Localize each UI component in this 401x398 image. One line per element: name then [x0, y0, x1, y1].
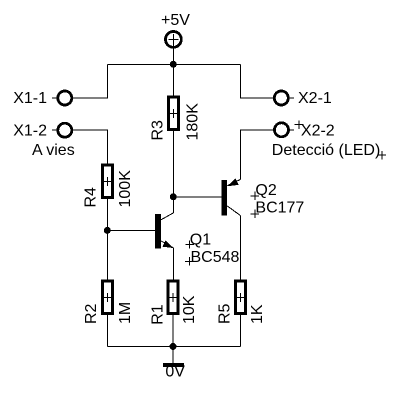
- wire Q2 collector to R5: [240, 216, 242, 280]
- wire R2 to bottom rail: [106, 314, 108, 347]
- junction top rail / +5V node: [170, 61, 177, 68]
- wire +5V stem: [172, 48, 174, 64]
- wire X2-2 to Q2 emitter: [241, 130, 274, 180]
- junction Q1 collector / Q2 base node: [170, 193, 177, 200]
- wire R4 to base node: [106, 199, 108, 230]
- svg-text:Q1: Q1: [190, 231, 211, 248]
- resistor R5: [236, 281, 246, 314]
- resistor R4: [102, 165, 112, 198]
- wire Q1 base: [107, 229, 156, 231]
- connector X1-1: [52, 91, 72, 105]
- resistor R3: [168, 97, 178, 130]
- resistor R1: [168, 281, 178, 314]
- transistor Q2: [222, 178, 241, 215]
- connector X2-2: [275, 123, 295, 137]
- svg-text:X2-1: X2-1: [298, 90, 332, 107]
- wire X1-2 to R4: [73, 130, 107, 163]
- wire top rail: [107, 63, 240, 65]
- svg-text:X1-1: X1-1: [13, 90, 47, 107]
- svg-text:+5V: +5V: [161, 12, 190, 29]
- svg-text:A vies: A vies: [32, 142, 75, 159]
- svg-text:BC548: BC548: [191, 249, 240, 266]
- svg-text:R2: R2: [83, 303, 100, 324]
- svg-text:1K: 1K: [249, 304, 266, 324]
- junction ground node: [170, 343, 177, 350]
- svg-text:R5: R5: [216, 303, 233, 324]
- wire node to Q2 base: [173, 196, 222, 198]
- wire base node to R2: [106, 230, 108, 279]
- svg-text:R3: R3: [149, 120, 166, 141]
- wire Q1 emitter to R1: [172, 248, 174, 280]
- origin cross Q1 label: [185, 240, 193, 248]
- svg-text:100K: 100K: [117, 170, 134, 208]
- wire bottom rail: [107, 345, 240, 347]
- connector X2-1: [274, 91, 294, 105]
- origin cross Deteccio label: [378, 151, 387, 160]
- svg-text:0V: 0V: [165, 363, 185, 380]
- svg-text:Q2: Q2: [255, 182, 276, 199]
- svg-text:1M: 1M: [117, 302, 134, 324]
- svg-text:X2-2: X2-2: [301, 122, 335, 139]
- svg-text:X1-2: X1-2: [13, 122, 47, 139]
- transistor Q1: [155, 197, 173, 249]
- resistor R2: [102, 281, 112, 314]
- svg-text:R4: R4: [82, 187, 99, 208]
- ground symbol 0V: [163, 363, 184, 367]
- connector X1-2: [52, 123, 72, 137]
- wire right drop to X2-1: [240, 64, 273, 98]
- wire R3 top stem: [172, 64, 174, 95]
- svg-text:R1: R1: [149, 304, 166, 325]
- wire R5 to bottom rail: [240, 314, 242, 347]
- svg-text:10K: 10K: [181, 295, 198, 324]
- wire R1 to bottom rail: [172, 314, 174, 347]
- junction Q1 base node: [104, 227, 111, 234]
- origin cross X2-2 label: [295, 120, 304, 129]
- power +5V symbol: [166, 32, 182, 48]
- wire left drop to X1-1: [73, 64, 107, 98]
- svg-text:180K: 180K: [184, 103, 201, 141]
- wire ground stem: [172, 346, 174, 363]
- wire R3 to collector node: [172, 131, 174, 197]
- origin cross BC177 label: [251, 210, 259, 218]
- origin cross BC548 label: [185, 257, 193, 265]
- svg-text:Detecció (LED): Detecció (LED): [272, 142, 380, 159]
- svg-text:BC177: BC177: [255, 199, 304, 216]
- origin cross Q2 label: [251, 192, 259, 200]
